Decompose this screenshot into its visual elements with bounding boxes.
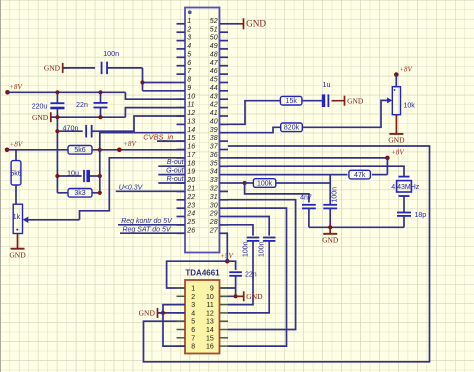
node bus/10u [55,174,59,178]
node [161,311,165,315]
wire gnd to U2 pin 3 [163,305,185,313]
wire +8V rail [8,91,126,93]
node 10u junction [98,174,102,178]
svg-text:47k: 47k [354,172,366,179]
pin 42 (right) [220,107,229,109]
wire [386,158,388,175]
svg-text:+5V: +5V [220,252,234,260]
svg-text:5k6: 5k6 [10,170,21,177]
U2 pin 1 [177,287,186,289]
pin 12 (left) [177,115,186,117]
wire to TDA pin 12 [228,241,269,313]
wire [302,100,324,102]
svg-text:G-out: G-out [166,168,185,175]
svg-text:3k3: 3k3 [74,190,85,197]
node [55,129,59,133]
pin 35 (right) [220,165,229,167]
U2 pin 4 [177,312,186,314]
wire [15,150,17,161]
wire pin 36 [228,157,387,159]
power +8V P4 (pot top) [394,72,399,77]
crystal 4.43MHz (X1) [399,176,410,178]
wire TDA pin 10 to GND [220,295,244,297]
svg-text:28: 28 [209,219,218,226]
pin 3 (left) [177,40,186,42]
svg-text:13: 13 [187,119,195,126]
svg-text:11: 11 [187,102,194,109]
svg-text:6: 6 [191,327,195,334]
wire +5V left loop to TDA pin 1 [167,261,228,288]
wire [276,182,330,184]
pin 39 (right) [220,132,229,134]
wire [329,208,331,227]
wire TDA pin 9 tap [220,287,236,289]
ground G7 [329,227,331,234]
svg-text:5: 5 [191,319,195,326]
svg-text:GND: GND [347,96,364,105]
svg-text:39: 39 [210,127,218,134]
pin 30 (right) [220,207,229,209]
pin 13 (left) [177,123,186,125]
wire [403,216,405,227]
pin 18 (left) [177,165,186,167]
svg-text:31: 31 [210,194,218,201]
ground G3 (below 1k) [17,234,19,249]
svg-text:44: 44 [210,85,218,92]
svg-text:9: 9 [187,85,191,92]
wire B-out to pin 18 [158,165,185,167]
capacitor 18p (C7) [397,212,411,214]
svg-text:16: 16 [187,144,195,151]
svg-text:U<0.3V: U<0.3V [119,184,144,191]
svg-text:21: 21 [186,186,195,193]
wire pin 52 [228,23,240,25]
U2 pin 6 [177,329,186,331]
svg-text:32: 32 [210,186,218,193]
wire [63,67,95,69]
svg-text:TDA4661: TDA4661 [185,269,220,278]
svg-text:100n: 100n [332,187,339,203]
pin 49 (right) [220,48,229,50]
wire Reg SAT to pin 26 [120,232,185,234]
ground G9 [157,308,159,318]
pin 7 (left) [177,73,186,75]
capacitor 1u (C6, polarized) [322,94,325,107]
svg-text:GND: GND [246,292,263,301]
svg-text:22n: 22n [245,272,257,279]
pin 32 (right) [220,190,229,192]
svg-text:27: 27 [209,227,219,234]
wire [158,312,186,314]
svg-text:40: 40 [210,119,218,126]
svg-text:10: 10 [187,93,195,100]
capacitor 100n (C10) [263,237,276,239]
capacitor 22n (C12) [229,271,242,273]
svg-text:4: 4 [191,310,195,317]
svg-text:CVBS_in: CVBS_in [143,133,173,142]
U2 pin 5 [177,320,186,322]
power +8V P2 [5,148,10,153]
pin 27 (right) [220,232,229,234]
wire corner to pin 12 [91,116,185,131]
resistor 15k (R5) [280,96,302,105]
svg-text:GND: GND [139,309,156,318]
svg-text:3: 3 [191,302,195,309]
pin 33 (right) [220,182,229,184]
pin 40 (right) [220,123,229,125]
node [98,115,102,119]
ground G8 [243,291,245,301]
svg-text:15k: 15k [286,98,298,105]
power +8V P5 [385,156,390,161]
node rail/22n [98,90,102,94]
pin 52 (right) [220,23,229,25]
wire branch to 4n7 [245,183,309,203]
svg-text:GND: GND [32,113,49,122]
wire U<0.3V to pin 21 [116,190,185,192]
pin 47 (right) [220,65,229,67]
svg-text:R-out: R-out [166,176,184,183]
power +8V P1 [5,90,10,95]
wire gnd cluster [309,226,404,228]
wire [92,192,100,194]
wire [142,68,144,91]
pin 46 (right) [220,73,229,75]
pin 1 (left) [177,23,186,25]
svg-text:5k6: 5k6 [74,147,85,154]
svg-text:100k: 100k [257,180,273,187]
capacitor 470n (C4) [85,125,87,138]
op-amp/IC U2 TDA4661 body [185,280,220,354]
wire pin 30 to TDA pin 16 [228,208,287,346]
pin 29 (right) [220,216,229,218]
pin 9 (left) [177,90,186,92]
pin 45 (right) [220,82,229,84]
svg-text:41: 41 [210,110,218,117]
wire wiper loop to pin 17 [80,158,186,220]
svg-text:29: 29 [209,211,218,218]
resistor 820k (R6) [281,123,303,132]
svg-text:51: 51 [210,26,218,33]
wire [7,149,68,151]
svg-text:10k: 10k [404,102,416,109]
svg-text:4,43MHz: 4,43MHz [391,184,420,191]
svg-text:19: 19 [187,169,195,176]
svg-text:+8V: +8V [9,83,23,91]
resistor 100k (R9) [253,179,275,188]
wire [308,208,310,227]
U2 pin 3 [177,304,186,306]
U2 pin 12 [220,312,229,314]
power +8V P3 [117,148,122,153]
pin 23 (left) [177,207,186,209]
node [243,181,247,185]
U2 pin 14 [220,329,229,331]
ground G2 [50,112,52,122]
node [234,294,238,298]
svg-text:470n: 470n [63,124,79,133]
pin 43 (right) [220,98,229,100]
svg-text:4n7: 4n7 [300,194,312,201]
svg-text:8: 8 [187,77,191,84]
potentiometer 10k (R7) [392,87,400,115]
resistor 47k (R8) [349,170,371,179]
svg-text:37: 37 [210,144,219,151]
resistor 5k6 (R3, vertical) [11,161,21,185]
pin 14 (left) [177,132,186,134]
svg-text:GND: GND [246,19,266,29]
svg-text:46: 46 [210,68,218,75]
svg-text:100n: 100n [259,241,266,257]
capacitor 4n7 (C8) [302,204,316,206]
potentiometer 1k (R4) [13,204,22,233]
svg-text:14: 14 [206,327,214,334]
wire gnd line [51,116,126,118]
pin 21 (left) [177,190,186,192]
svg-text:50: 50 [210,35,218,42]
svg-text:14: 14 [187,127,195,134]
pin 51 (right) [220,31,229,33]
pin 48 (right) [220,56,229,58]
pin 50 (right) [220,40,229,42]
resistor 5k6 (R1) [68,146,92,155]
pin 36 (right) [220,157,229,159]
wire [395,75,397,87]
wire R-out to pin 20 [158,182,185,184]
capacitor 100n (C1) [101,62,103,75]
main IC body with pin-1 dot [185,8,220,253]
wire rail corner to pin 10 [125,92,185,99]
pin 17 (left) [177,157,186,159]
svg-text:2: 2 [191,294,195,301]
node [98,148,102,152]
ground G4 [243,18,245,29]
pin 24 (left) [177,216,186,218]
svg-text:GND: GND [44,64,61,73]
U2 pin 11 [220,304,229,306]
svg-text:36: 36 [210,152,218,159]
power +5V P6 [225,259,230,264]
svg-text:1: 1 [191,286,195,293]
svg-text:5: 5 [187,51,191,58]
svg-text:30: 30 [210,202,218,209]
svg-text:18p: 18p [415,212,427,219]
svg-text:GND: GND [388,136,405,145]
wire to pin 8 [143,82,177,84]
U2 pin 13 [220,320,229,322]
ground G6 (pot bottom) [395,115,397,134]
capacitor 220u (C2, polarized) [50,102,64,104]
svg-text:1u: 1u [323,80,331,89]
pin 16 (left) [177,149,186,151]
wire pin 39 jog [228,127,281,132]
ground G5 [344,96,346,106]
svg-text:23: 23 [186,202,195,209]
pin 8 (left) [177,82,186,84]
node [98,191,102,195]
wire [56,108,58,117]
wire CVBS_in to pin 15 [157,140,185,142]
wire [15,185,17,204]
svg-text:25: 25 [186,219,195,226]
svg-text:100n: 100n [103,49,119,58]
pin 34 (right) [220,174,229,176]
svg-text:43: 43 [210,93,218,100]
svg-text:2: 2 [186,26,191,33]
svg-text:15: 15 [187,135,195,142]
wire G-out to pin 19 [158,174,185,176]
capacitor 100n (C11) [247,237,260,239]
U2 pin 10 [220,295,229,297]
wire bus [56,117,58,193]
wire [302,100,388,127]
pin 38 (right) [220,140,229,142]
svg-text:+8V: +8V [399,66,413,74]
pin 5 (left) [177,56,186,58]
pin 2 (left) [177,31,186,33]
wire gnd to U2 pin 8 [163,313,185,346]
wire corner to pin 11 [125,108,185,118]
U2 pin 8 [177,345,186,347]
wire pin 29 upper [228,217,269,236]
svg-text:B-out: B-out [167,159,185,166]
svg-text:18: 18 [187,160,195,167]
svg-text:+8V: +8V [9,140,23,148]
svg-text:38: 38 [210,135,218,142]
svg-text:7: 7 [191,335,195,342]
svg-text:Reg kontr do 5V: Reg kontr do 5V [121,218,173,225]
wire pin 40 jog [228,101,281,125]
svg-text:GND: GND [9,250,26,259]
node pin8 junction [140,80,144,84]
wire pin 35 [228,166,404,176]
wiper arrow of 10k pot [387,97,392,103]
wire pin 34 [228,174,348,176]
wire [100,108,102,118]
U2 pin 7 [177,337,186,339]
wiper arrow of R4 [23,217,29,223]
svg-text:1: 1 [187,18,191,25]
wire bus corner [57,192,68,194]
svg-text:34: 34 [210,169,218,176]
svg-text:+8V: +8V [391,149,405,157]
svg-text:26: 26 [186,227,195,234]
svg-text:22n: 22n [76,102,88,109]
svg-text:35: 35 [210,160,218,167]
wire [90,175,100,177]
svg-text:8: 8 [191,344,195,351]
wire [107,67,143,69]
wire pin 37 long loop [144,146,430,362]
wire to pin 9 [143,90,177,92]
svg-text:49: 49 [210,43,218,50]
svg-text:12: 12 [206,310,214,317]
wire [245,182,254,184]
svg-text:24: 24 [186,211,195,218]
wire [57,130,82,132]
wire to TDA pin 11 [228,241,253,305]
svg-text:4: 4 [187,43,191,50]
svg-text:GND: GND [322,235,339,244]
pin 20 (left) [177,182,186,184]
pin 10 (left) [177,98,186,100]
wire 100n column [329,175,331,205]
pin 44 (right) [220,90,229,92]
pin 37 (right) [220,149,229,151]
svg-text:48: 48 [210,51,218,58]
svg-text:+8V: +8V [123,140,137,148]
svg-text:13: 13 [206,319,214,326]
svg-text:9: 9 [210,286,214,293]
capacitor 100n (C9) [323,204,337,206]
wire Reg kontr to pin 25 [118,224,185,226]
svg-text:10u: 10u [67,168,79,177]
ground G1 [62,63,64,73]
svg-text:42: 42 [210,102,218,109]
U2 pin 16 [220,345,229,347]
svg-text:6: 6 [187,60,191,67]
svg-text:45: 45 [210,77,218,84]
svg-text:47: 47 [210,60,219,67]
pin 19 (left) [177,174,186,176]
wire [92,149,185,151]
pin 26 (left) [177,232,186,234]
svg-text:11: 11 [207,302,214,309]
wire pin 28 upper [228,225,253,236]
svg-text:33: 33 [210,177,218,184]
svg-text:1k: 1k [13,214,21,221]
wire [57,175,81,177]
U2 pin 9 [220,287,229,289]
capacitor 22n (C3) [94,102,108,104]
wire [403,196,405,213]
pin 28 (right) [220,224,229,226]
svg-text:3: 3 [187,35,191,42]
wire +5V right [227,261,235,270]
pin 31 (right) [220,199,229,201]
svg-text:820k: 820k [284,125,300,132]
pin 15 (left) [177,140,186,142]
svg-text:10: 10 [206,294,214,301]
resistor 3k3 (R2) [68,189,92,198]
svg-text:20: 20 [186,177,195,184]
wire pin 33 [228,182,245,184]
pin 22 (left) [177,199,186,201]
pin 11 (left) [177,107,186,109]
svg-text:12: 12 [187,110,195,117]
svg-text:52: 52 [210,18,218,25]
wire bus [56,92,58,103]
pin 41 (right) [220,115,229,117]
svg-text:100n: 100n [242,241,249,257]
svg-text:Reg SAT do 5V: Reg SAT do 5V [122,226,171,233]
wire pin 27 down [226,233,229,261]
capacitor 10u (C5, polarized) [83,170,85,182]
svg-text:220u: 220u [32,104,48,111]
wire 22n top [100,92,102,103]
node [55,115,59,119]
U2 pin 2 [177,295,186,297]
wire branch up to pin 14 [100,133,185,193]
svg-text:15: 15 [206,335,214,342]
svg-text:22: 22 [186,194,195,201]
node [328,225,332,229]
svg-text:16: 16 [206,344,214,351]
pin 4 (left) [177,48,186,50]
pin 6 (left) [177,65,186,67]
node rail/bus [55,90,59,94]
wire [235,276,237,297]
